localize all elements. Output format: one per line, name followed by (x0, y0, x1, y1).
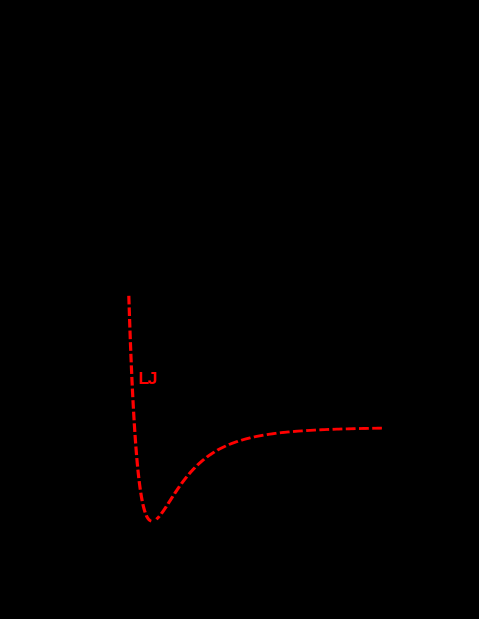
svg-text:LJ: LJ (139, 368, 157, 388)
LJ potential curve right (attractive) branch, red dashed (156, 428, 381, 519)
LJ potential curve left (repulsive) branch, red dashed (129, 296, 382, 521)
